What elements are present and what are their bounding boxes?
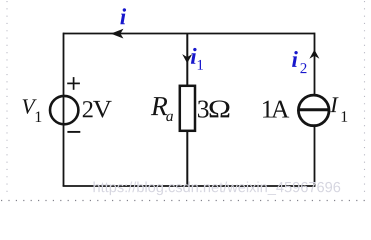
current source I1 bar bbox=[298, 108, 329, 111]
wire left branch bbox=[63, 33, 65, 186]
voltage source V1 circle bbox=[50, 96, 78, 124]
page border dotted bottom bbox=[1, 200, 371, 202]
label 1A value bbox=[263, 101, 289, 118]
V1 polarity plus bbox=[67, 77, 80, 90]
label i1 bbox=[191, 48, 203, 70]
label i2 bbox=[292, 51, 306, 73]
label i bbox=[120, 8, 126, 24]
watermark bbox=[94, 182, 341, 196]
arrow current i2 on right branch bbox=[310, 50, 318, 58]
wire right branch upper bbox=[314, 33, 316, 95]
wire middle branch lower bbox=[186, 131, 188, 186]
resistor Ra body bbox=[180, 86, 195, 131]
wire top bbox=[63, 33, 315, 35]
V1 polarity minus bbox=[67, 131, 80, 133]
arrow current i on top wire bbox=[112, 29, 123, 38]
label I1 bbox=[330, 97, 347, 121]
label 2V value bbox=[83, 101, 112, 118]
page border dotted left bbox=[6, 1, 8, 196]
wire right branch lower bbox=[314, 126, 316, 186]
wire middle branch upper bbox=[186, 34, 188, 87]
label Ra bbox=[151, 97, 173, 121]
label V1 bbox=[23, 99, 42, 122]
arrow current i1 on middle branch bbox=[183, 55, 191, 63]
wire bottom bbox=[63, 185, 316, 187]
current source I1 circle bbox=[298, 95, 329, 126]
label 3 ohm value bbox=[198, 101, 229, 118]
page border dotted right bbox=[364, 1, 366, 196]
